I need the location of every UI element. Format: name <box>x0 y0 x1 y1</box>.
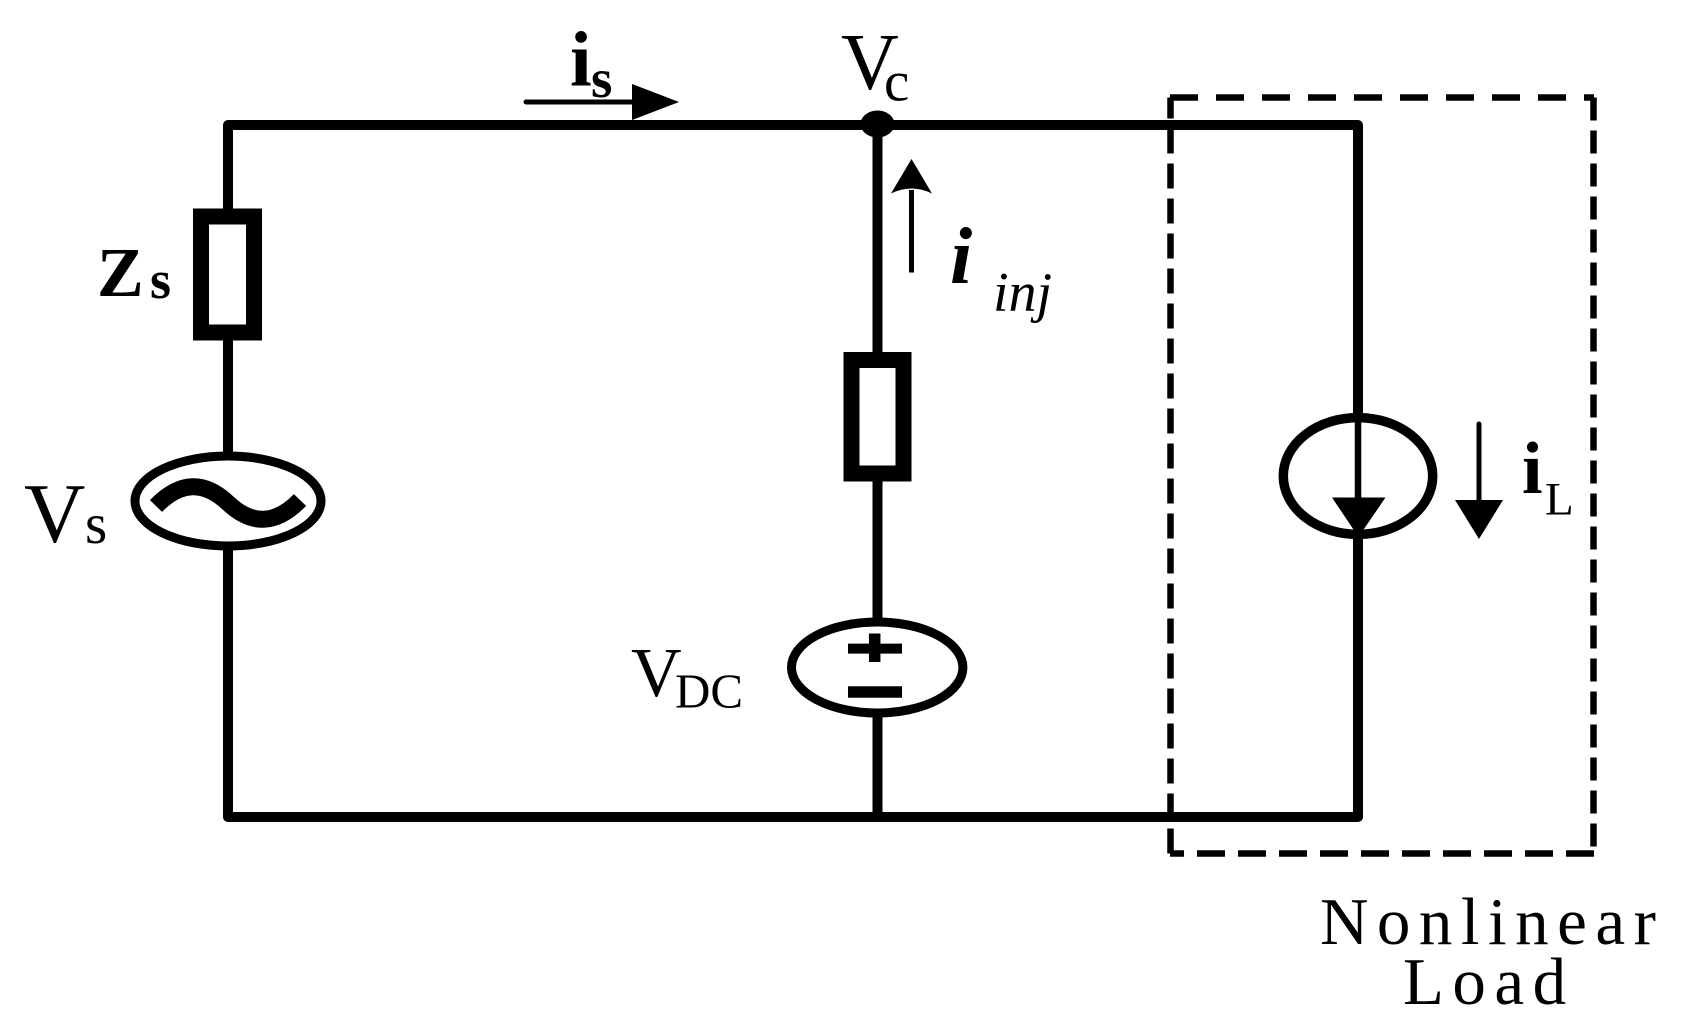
svg-text:inj: inj <box>993 262 1052 324</box>
svg-text:L: L <box>1545 474 1574 526</box>
svg-text:s: s <box>591 48 612 109</box>
svg-text:c: c <box>884 51 909 114</box>
svg-text:s: s <box>150 250 171 310</box>
svg-text:Z: Z <box>97 235 144 312</box>
svg-text:i: i <box>950 213 972 301</box>
svg-text:DC: DC <box>675 664 743 719</box>
svg-text:V: V <box>631 635 682 712</box>
svg-text:Load: Load <box>1403 945 1575 1019</box>
svg-text:s: s <box>85 493 107 556</box>
svg-text:i: i <box>570 16 592 103</box>
svg-text:V: V <box>24 467 85 561</box>
svg-text:i: i <box>1522 428 1543 510</box>
